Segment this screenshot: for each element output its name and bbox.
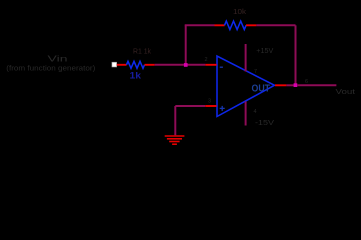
- wire (down to ground symbol): [174, 106, 176, 135]
- node A junction dot: [184, 63, 188, 67]
- svg-text:2: 2: [205, 57, 208, 63]
- wire (non-inverting input to ground, horizontal): [175, 105, 205, 107]
- wire (node A to inverting input lead): [186, 64, 206, 66]
- wire (output stub to node B): [286, 84, 295, 86]
- pin 6 lead (output): [275, 84, 286, 86]
- svg-text:R1 1k: R1 1k: [133, 49, 151, 56]
- wire (pin lead, R2 right): [246, 24, 256, 26]
- svg-text:6: 6: [305, 79, 308, 85]
- op-amp U1 triangle body: [217, 56, 275, 117]
- svg-text:10k: 10k: [233, 7, 246, 16]
- svg-text:3: 3: [208, 99, 211, 105]
- wire (R1 to node A): [155, 64, 186, 66]
- wire (pin lead, port to R1 left): [117, 64, 127, 66]
- wire (output to the right): [297, 84, 336, 86]
- op-amp plus mark: [220, 106, 225, 111]
- port P1 (input terminal square): [112, 62, 117, 67]
- resistor R1 body (1k input resistor): [127, 61, 145, 68]
- ground symbol: [165, 136, 185, 144]
- svg-text:Vout: Vout: [336, 89, 356, 96]
- wire (pin lead, R1 right): [145, 64, 155, 66]
- svg-text:+15V: +15V: [256, 48, 273, 55]
- pin 7 lead (V+ supply): [245, 44, 247, 72]
- svg-text:4: 4: [254, 109, 257, 115]
- svg-text:-15V: -15V: [255, 120, 274, 127]
- svg-text:1k: 1k: [130, 70, 143, 80]
- wire (feedback top rail left segment): [185, 24, 215, 26]
- svg-text:OUT: OUT: [252, 83, 271, 95]
- resistor R2 body (10k feedback resistor): [225, 21, 247, 29]
- wire (node A up to feedback rail): [185, 25, 187, 66]
- svg-text:(from function generator): (from function generator): [6, 63, 95, 72]
- pin 2 lead (inverting input): [205, 64, 216, 66]
- pin 4 lead (V- supply): [245, 102, 247, 126]
- svg-text:Vin: Vin: [48, 54, 68, 64]
- pin 3 lead (non-inverting input): [205, 105, 216, 107]
- wire (feedback top rail right segment): [256, 24, 295, 26]
- node B junction dot (output): [294, 83, 298, 87]
- op-amp minus mark: [220, 66, 223, 68]
- wire (feedback down to output node): [295, 25, 297, 84]
- svg-text:7: 7: [254, 69, 257, 75]
- wire (pin lead, R2 left): [215, 24, 225, 26]
